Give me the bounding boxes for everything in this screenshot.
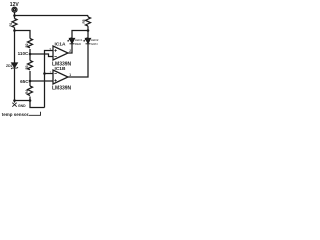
junction dot LED node (87, 29, 90, 32)
LED1 (70, 39, 75, 44)
wire rail down to R5 (87, 16, 89, 18)
svg-text:110C: 110C (18, 51, 29, 56)
wire R3 to node 65C (29, 71, 31, 86)
wire left rail lower (14, 69, 16, 103)
svg-text:IC1B: IC1B (55, 66, 66, 72)
wire terminal to rail (14, 12, 16, 18)
svg-text:65C: 65C (20, 79, 29, 84)
resistor R1 (12, 19, 17, 28)
zener diode ZD1 (12, 63, 17, 67)
wire IC1A output (68, 44, 72, 53)
svg-text:LM339N: LM339N (52, 85, 72, 91)
svg-text:ZD1: ZD1 (6, 64, 13, 68)
svg-text:R4: R4 (25, 90, 29, 94)
junction dot node A (13, 29, 16, 32)
resistor R3 (28, 61, 33, 70)
svg-text:GRN: GRN (91, 42, 98, 46)
op-amp IC1A (53, 46, 68, 60)
resistor R5 (86, 17, 91, 26)
wire sensor to IC1B upper input (45, 73, 54, 75)
leader line temp sensor (29, 112, 41, 116)
resistor R4 (28, 86, 33, 96)
junction dot divider ground (29, 99, 32, 102)
junction dot node 110C (29, 53, 32, 56)
resistor R2 (28, 39, 33, 48)
wire node A to divider top (15, 31, 31, 39)
wire sensor line (45, 51, 54, 108)
svg-text:1: 1 (69, 73, 71, 77)
wire top rail (15, 15, 89, 17)
svg-text:GND: GND (18, 104, 26, 108)
op-amp IC1B (53, 70, 68, 84)
wire node 110C to IC1A lower input (30, 54, 53, 57)
svg-text:IC1A: IC1A (55, 41, 66, 47)
wire left rail upper (14, 28, 16, 64)
LED2 (86, 39, 91, 44)
wire LED node to LED1 branch (72, 31, 88, 39)
svg-text:RED: RED (75, 42, 82, 46)
junction dot sensor to IC1B (43, 72, 46, 75)
power terminal 12V (12, 7, 17, 12)
terminal X GND (12, 103, 16, 107)
junction dot node 65C (29, 80, 32, 83)
junction dot top-left (13, 14, 16, 17)
svg-text:temp sensor: temp sensor (2, 112, 29, 117)
wire IC1B output (68, 44, 88, 77)
svg-text:R5: R5 (82, 19, 86, 23)
wire R5 to LED node (87, 26, 89, 38)
wire node 65C to IC1B lower input (30, 80, 53, 82)
svg-text:R1: R1 (9, 22, 13, 26)
svg-text:2: 2 (69, 49, 71, 53)
wire R2 to node 110C (29, 49, 31, 61)
junction dot ground node (13, 99, 16, 102)
svg-text:R2: R2 (25, 43, 29, 47)
wire ground node to divider (15, 100, 31, 102)
wire R4 bottom to sensor corner (30, 97, 45, 108)
svg-text:R3: R3 (25, 65, 29, 69)
